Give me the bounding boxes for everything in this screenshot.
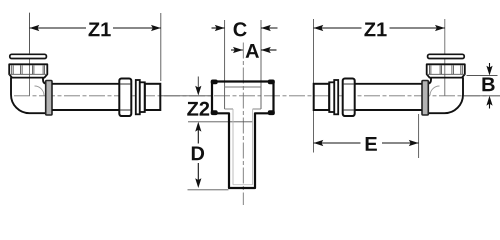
label D	[192, 146, 204, 160]
centerline vertical left elbow port	[29, 13, 31, 96]
arrow Z1 right-left	[314, 25, 324, 31]
dimension line E	[314, 142, 361, 144]
tee socket bump bottom-right	[268, 110, 275, 115]
arrow A right (points left)	[261, 47, 271, 53]
elbow inner corner	[43, 77, 47, 84]
centerline vertical right elbow port / Z1 right extension	[444, 19, 446, 96]
extension line B top (nut underside)	[467, 75, 498, 77]
trap inlet washer	[10, 54, 47, 58]
arrow D bottom (points down at leg end)	[195, 178, 201, 188]
label E	[366, 137, 377, 151]
dimension A tails	[231, 49, 243, 51]
extension line C right / A right / tee socket line	[260, 20, 262, 109]
dimension B lower arrow (points up)	[489, 102, 491, 109]
dimension Z2 upper arrow (points down at centerline)	[197, 77, 199, 89]
elbow outlet collar (gray)	[46, 81, 52, 116]
tee socket bump top-right	[268, 80, 275, 85]
extension line Z1 left (right end, stub face)	[160, 13, 162, 81]
extension line Z1 left (left end)	[29, 13, 31, 53]
extension line E right (collar face)	[418, 114, 420, 158]
tee inner shoulder left	[225, 108, 233, 110]
elbow bore hint arc	[35, 86, 45, 96]
arrow E right	[409, 140, 419, 146]
arrow Z1 right-right	[435, 25, 445, 31]
tee leg inner wall right	[252, 109, 254, 185]
dimension B upper arrow (points down)	[489, 63, 491, 69]
tee socket bump top-left	[211, 80, 218, 85]
tee socket bump bottom-left	[211, 110, 218, 115]
arrow E left	[314, 140, 324, 146]
dimension D line with Z2 lower arrow (points up)	[195, 122, 201, 132]
centerline vertical tee leg	[242, 43, 244, 206]
tee leg inner wall left	[232, 109, 234, 185]
compression nut	[119, 79, 131, 117]
label Z1 right	[364, 22, 386, 36]
tee outline	[212, 82, 274, 189]
extension line D bottom (leg end)	[188, 189, 229, 191]
extension line Z2 lower / tee leg socket depth	[188, 121, 253, 123]
label Z2	[187, 102, 209, 116]
trap inlet nut	[9, 64, 47, 77]
ferrule body	[140, 82, 145, 112]
arrow Z1 left-left	[30, 25, 40, 31]
arrow A left (points right at centerline)	[233, 47, 243, 53]
pipe top edge	[52, 83, 119, 85]
dimension C tails	[212, 27, 225, 29]
compression nut groove top	[120, 83, 131, 85]
nut knurl lines	[12, 65, 45, 74]
arrow Z1 left-right	[151, 25, 161, 31]
label Z1 left	[89, 22, 111, 36]
extension line Z1 right / E left (stub face)	[313, 19, 315, 153]
extension line B bottom (pipe centerline, solid segment)	[463, 95, 500, 97]
label B	[482, 77, 494, 91]
tee inner top line	[225, 86, 261, 88]
tee inner shoulder right	[253, 108, 261, 110]
main horizontal centerline	[14, 95, 500, 97]
arrow C left (points right)	[215, 25, 225, 31]
compression nut groove bottom	[120, 109, 131, 111]
extension line Z2 upper (pipe centerline, solid segment)	[161, 95, 212, 97]
right trap assembly: stub, ferrule, compression nut, pipe, collar, elbow, inlet nut, inlet washer	[314, 54, 465, 116]
arrow C right (points left)	[261, 25, 271, 31]
tee leg inner bottom line	[233, 184, 253, 186]
ferrule lip	[136, 80, 140, 114]
stub pipe end	[145, 84, 161, 110]
nut shoulder line	[9, 73, 47, 75]
label A	[246, 44, 259, 58]
dimension line Z1 right	[314, 27, 362, 29]
extension line C left / tee socket line	[224, 20, 226, 109]
pipe bottom edge	[52, 109, 119, 111]
dimension line Z1 left	[30, 27, 87, 29]
elbow body	[11, 77, 47, 113]
label C	[234, 22, 247, 36]
